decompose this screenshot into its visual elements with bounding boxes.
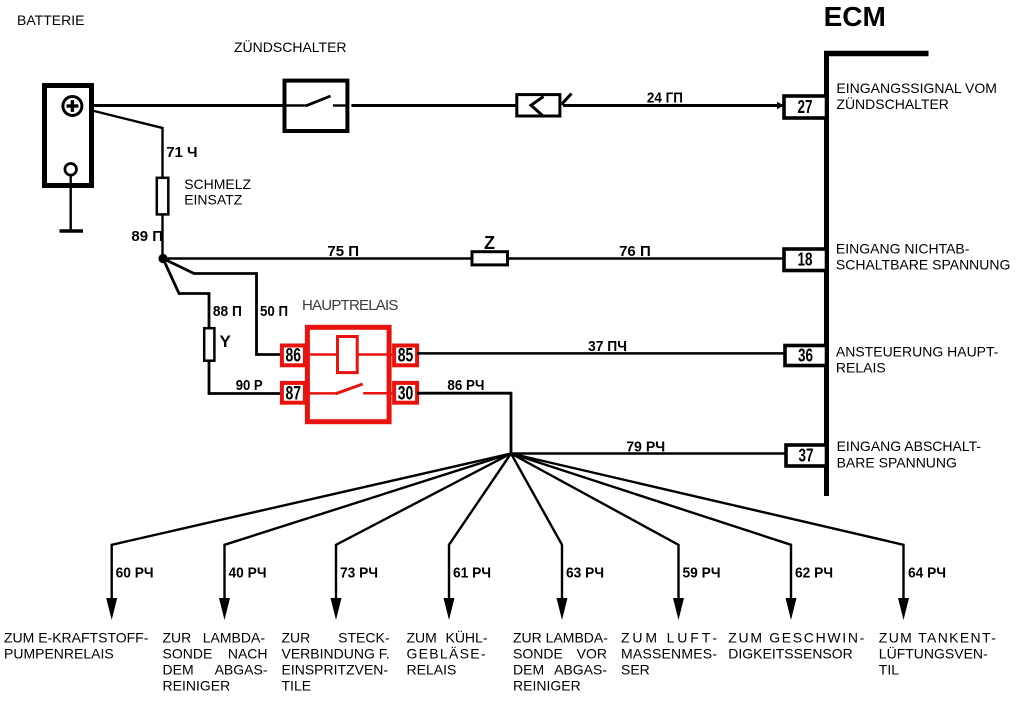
svg-text:24 ГП: 24 ГП <box>647 90 683 107</box>
ECM connector line <box>824 51 929 496</box>
wire 50 П node to relay pin 86 <box>163 259 281 355</box>
svg-text:EINGANGSSIGNAL VOM: EINGANGSSIGNAL VOM <box>836 80 997 96</box>
svg-text:75 П: 75 П <box>327 243 359 260</box>
wire diagonal battery plus to fuse 71Ч <box>84 109 163 178</box>
svg-text:71 Ч: 71 Ч <box>166 144 197 161</box>
svg-text:TILE: TILE <box>282 678 312 694</box>
relay pin 30 <box>394 383 417 405</box>
ECM pin 27 <box>784 96 827 118</box>
svg-text:REINIGER: REINIGER <box>513 678 581 694</box>
svg-text:HAUPTRELAIS: HAUPTRELAIS <box>302 297 398 314</box>
wire 37 ПЧ relay pin 85 to ECM pin 36 <box>417 352 786 355</box>
fuse SCHMELZ EINSATZ <box>157 178 169 215</box>
wire switch to connector <box>351 104 517 107</box>
svg-text:NACH: NACH <box>228 646 268 662</box>
wire 88 П node to fuse Y <box>163 259 209 329</box>
svg-text:SCHALTBARE SPANNUNG: SCHALTBARE SPANNUNG <box>836 257 1011 273</box>
relay pin 87 <box>282 383 305 405</box>
svg-text:ZUM: ZUM <box>407 630 437 646</box>
svg-text:64 РЧ: 64 РЧ <box>908 565 946 582</box>
svg-text:KÜHL-: KÜHL- <box>445 629 487 646</box>
svg-text:RELAIS: RELAIS <box>836 360 886 376</box>
svg-text:86: 86 <box>286 346 302 367</box>
svg-text:27: 27 <box>798 97 813 117</box>
svg-text:60 РЧ: 60 РЧ <box>116 565 154 582</box>
svg-text:30: 30 <box>398 384 414 405</box>
wire to arrow 7 <box>511 454 791 601</box>
destination label 5: ZUR LAMBDA-SONDE VOR DEM ABGAS-REINIGER <box>513 630 608 694</box>
wire to arrow 6 <box>511 454 679 601</box>
svg-text:EINSPRITZVEN-: EINSPRITZVEN- <box>282 662 389 678</box>
ignition switch S1 <box>285 81 348 131</box>
svg-text:EINGANG ABSCHALT-: EINGANG ABSCHALT- <box>837 438 982 454</box>
destination label 3: ZUR STECKVERBINDUNG F. EINSPRITZVENTILE <box>282 630 390 694</box>
svg-text:Z: Z <box>484 233 495 253</box>
svg-text:SONDE: SONDE <box>513 646 563 662</box>
svg-text:DEM: DEM <box>163 662 194 678</box>
wire to arrow 4 <box>449 454 511 601</box>
destination label 6: ZUM LUFTMASSENMESSER <box>621 630 717 678</box>
svg-text:18: 18 <box>798 250 813 270</box>
wire to arrow 8 <box>511 454 904 601</box>
wire to arrow 1 <box>112 454 511 601</box>
wire 86 РЧ relay pin 30 to fan node <box>417 393 511 453</box>
svg-text:61 РЧ: 61 РЧ <box>453 565 491 582</box>
destination label 7: ZUM GESCHWINDIGKEITSSENSOR <box>728 630 864 662</box>
svg-text:ZUM E-KRAFTSTOFF-: ZUM E-KRAFTSTOFF- <box>4 630 149 646</box>
svg-text:ECM: ECM <box>824 1 886 32</box>
svg-text:62 РЧ: 62 РЧ <box>795 565 833 582</box>
ECM pin 18 <box>784 249 827 271</box>
arrowheads <box>106 598 909 620</box>
svg-text:50 П: 50 П <box>260 303 288 320</box>
node 89П junction dot <box>158 254 167 263</box>
wire to arrow 3 <box>336 454 511 601</box>
fuse Z <box>472 233 508 265</box>
relay pin 85 <box>394 346 417 367</box>
wire to arrow 5 <box>511 454 562 601</box>
svg-text:ABGAS-: ABGAS- <box>215 662 268 678</box>
svg-text:VERBINDUNG F.: VERBINDUNG F. <box>282 646 390 662</box>
svg-text:87: 87 <box>286 384 302 405</box>
wire 75 П node to fuse Z <box>163 257 473 259</box>
svg-text:ZÜNDSCHALTER: ZÜNDSCHALTER <box>836 95 949 112</box>
connector X1 <box>517 94 572 117</box>
svg-text:86 РЧ: 86 РЧ <box>447 377 484 394</box>
svg-text:BATTERIE: BATTERIE <box>17 12 84 28</box>
battery <box>45 86 92 186</box>
svg-text:63 РЧ: 63 РЧ <box>566 565 604 582</box>
destination label 4: ZUM KÜHLGEBLÄSE-RELAIS <box>407 629 488 678</box>
svg-text:88 П: 88 П <box>213 303 242 320</box>
svg-text:76 П: 76 П <box>619 243 651 260</box>
svg-text:GEBLÄSE-: GEBLÄSE- <box>407 646 486 662</box>
svg-text:59 РЧ: 59 РЧ <box>683 565 721 582</box>
svg-text:ZUM TANKENT-: ZUM TANKENT- <box>879 630 996 646</box>
svg-text:ZUR LAMBDA-: ZUR LAMBDA- <box>513 630 608 646</box>
fan wire labels <box>116 565 946 582</box>
svg-text:RELAIS: RELAIS <box>407 662 457 678</box>
destination label 8: ZUM TANKENTLÜFTUNGSVENTIL <box>879 630 996 678</box>
svg-text:SONDE: SONDE <box>163 646 213 662</box>
svg-text:89 П: 89 П <box>131 228 163 245</box>
svg-text:LAMBDA-: LAMBDA- <box>203 630 266 646</box>
fuse Y <box>204 328 231 361</box>
svg-text:EINSATZ: EINSATZ <box>184 192 243 208</box>
wire 76 П fuse Z to pin 18 <box>508 257 784 259</box>
svg-text:PUMPENRELAIS: PUMPENRELAIS <box>4 646 114 662</box>
svg-text:REINIGER: REINIGER <box>163 678 231 694</box>
relay switch contact <box>307 392 336 395</box>
svg-text:DIGKEITSSENSOR: DIGKEITSSENSOR <box>728 646 852 662</box>
wire 79 РЧ fan node to ECM pin 37 <box>511 452 787 455</box>
svg-text:90 Р: 90 Р <box>236 377 263 394</box>
svg-text:ZUR: ZUR <box>163 630 192 646</box>
ECM pin 36 <box>785 346 827 366</box>
svg-text:ABGAS-: ABGAS- <box>554 662 607 678</box>
svg-text:SER: SER <box>621 662 650 678</box>
svg-text:EINGANG NICHTAB-: EINGANG NICHTAB- <box>836 241 970 257</box>
wire 24 ГП connector to pin 27 <box>563 104 784 107</box>
svg-text:37: 37 <box>799 446 814 466</box>
svg-text:ZÜNDSCHALTER: ZÜNDSCHALTER <box>234 38 347 55</box>
svg-text:SCHMELZ: SCHMELZ <box>184 176 251 192</box>
svg-text:37 ПЧ: 37 ПЧ <box>588 338 627 355</box>
relay pin 86 <box>282 346 305 367</box>
wire fuse bottom to node 89П <box>161 215 163 259</box>
ECM pin 37 <box>786 445 827 466</box>
svg-text:ZUR: ZUR <box>282 630 311 646</box>
svg-text:BARE SPANNUNG: BARE SPANNUNG <box>837 455 957 471</box>
relay coil wires <box>307 353 338 356</box>
svg-text:STECK-: STECK- <box>338 630 390 646</box>
svg-text:LÜFTUNGSVEN-: LÜFTUNGSVEN- <box>879 645 988 662</box>
svg-text:TIL: TIL <box>879 662 899 678</box>
svg-text:VOR: VOR <box>577 646 607 662</box>
destination label 1: ZUM E-KRAFTSTOFF-PUMPENRELAIS <box>4 630 149 662</box>
svg-text:Y: Y <box>220 332 232 351</box>
svg-text:85: 85 <box>398 346 414 367</box>
svg-text:DEM: DEM <box>513 662 544 678</box>
relay coil <box>338 337 358 373</box>
svg-text:73 РЧ: 73 РЧ <box>340 565 378 582</box>
svg-text:ANSTEUERUNG HAUPT-: ANSTEUERUNG HAUPT- <box>836 344 999 360</box>
svg-text:79 РЧ: 79 РЧ <box>626 438 665 455</box>
wire 90 Р fuse Y to relay pin 87 <box>209 361 281 394</box>
wire to arrow 2 <box>225 454 512 601</box>
svg-text:MASSENMES-: MASSENMES- <box>621 646 717 662</box>
svg-text:ZUM LUFT-: ZUM LUFT- <box>621 630 717 646</box>
wire battery plus to ignition switch <box>82 104 284 107</box>
destination label 2: ZUR LAMBDA-SONDE NACH DEM ABGAS-REINIGER <box>163 630 268 694</box>
ground <box>60 175 84 231</box>
svg-text:36: 36 <box>798 346 813 366</box>
relay K1 main box <box>307 327 389 421</box>
fan wires from node to eight arrows <box>112 454 904 601</box>
svg-text:40 РЧ: 40 РЧ <box>229 565 267 582</box>
